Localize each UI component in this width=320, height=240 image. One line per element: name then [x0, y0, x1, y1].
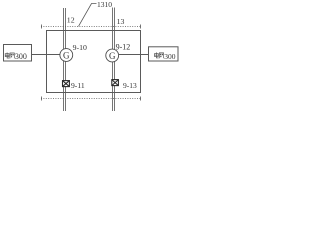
svg-text:12: 12 — [67, 16, 75, 25]
svg-text:300: 300 — [15, 52, 27, 61]
text dianwang300 left : 电 glyph — [5, 53, 9, 59]
text dianwang300 right : 网 glyph — [159, 53, 163, 59]
wire generator G2 to right grid box — [119, 54, 149, 56]
svg-text:13: 13 — [117, 17, 125, 26]
label 1310 leader line — [79, 4, 97, 27]
svg-text:9-12: 9-12 — [116, 43, 131, 52]
zone boundary bottom dotted line — [41, 97, 141, 101]
svg-text:G: G — [109, 51, 116, 61]
svg-text:9-11: 9-11 — [71, 81, 85, 90]
grid box right — [149, 47, 179, 61]
svg-text:G: G — [63, 50, 70, 60]
text dianwang300 right : 电 glyph — [155, 52, 159, 58]
generator 9-10 circle — [60, 49, 73, 62]
text dianwang300 left : 网 glyph — [10, 53, 14, 59]
breaker 9-13 (crossed square on bus 13) — [112, 80, 119, 86]
svg-text:9-10: 9-10 — [73, 43, 87, 52]
svg-text:1310: 1310 — [97, 0, 112, 9]
bus 12 (left vertical double line) — [64, 8, 66, 111]
bus 13 (right vertical double line) — [113, 8, 115, 112]
wire left grid box to generator G1 — [32, 54, 61, 56]
svg-text:300: 300 — [164, 52, 176, 61]
generator 9-12 circle — [106, 49, 119, 62]
grid box left — [4, 45, 32, 62]
zone boundary top dotted line — [41, 25, 141, 29]
svg-text:9-13: 9-13 — [123, 81, 137, 90]
breaker 9-11 (crossed square on bus 12) — [63, 81, 70, 87]
plant boundary rectangle — [47, 31, 141, 93]
